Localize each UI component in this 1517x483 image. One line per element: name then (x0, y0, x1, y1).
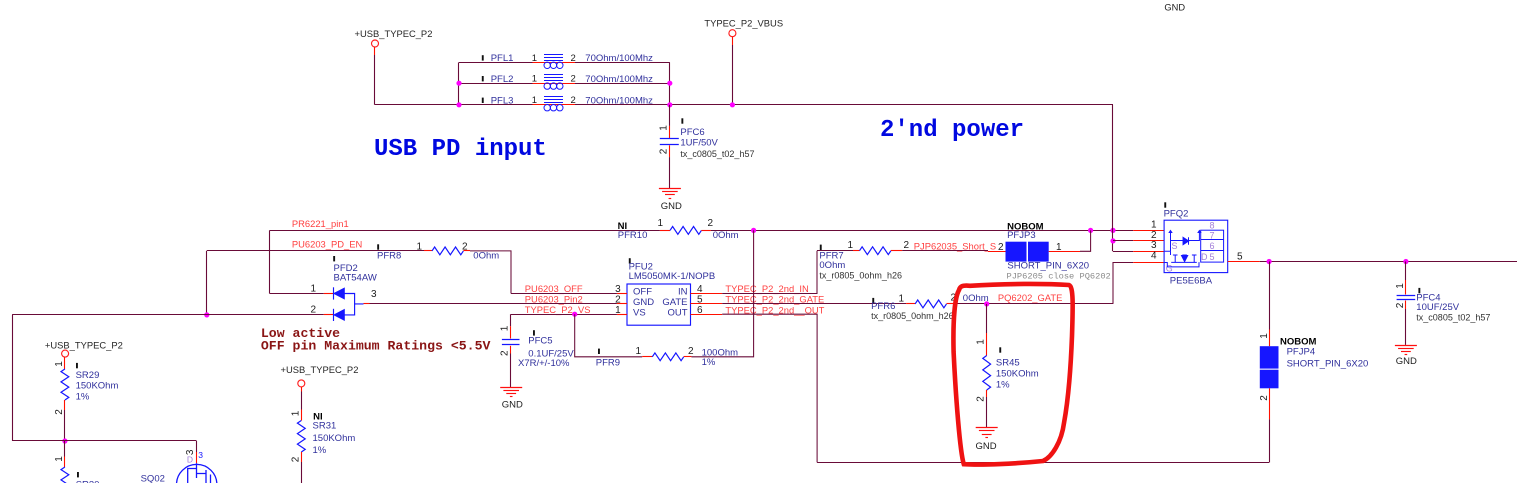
wire VBUS vertical to PFQ2 (1112, 105, 1114, 252)
svg-text:PFR10: PFR10 (618, 230, 648, 241)
svg-text:1: 1 (532, 74, 537, 85)
svg-text:SR30: SR30 (76, 480, 100, 483)
svg-text:2: 2 (658, 148, 669, 154)
wire SR31 power stub (301, 387, 303, 392)
wire to PFD2 pin 1 (270, 293, 324, 295)
svg-text:D: D (187, 455, 193, 465)
wire PFL right vertical bus (669, 62, 671, 104)
junction PR6221 rail / PFJP3 branch (1088, 228, 1093, 233)
svg-text:3: 3 (1151, 240, 1157, 251)
capacitor PFC5 (502, 339, 520, 341)
svg-text:IN: IN (678, 287, 688, 298)
svg-text:PFL2: PFL2 (491, 74, 514, 85)
svg-text:3: 3 (371, 289, 377, 300)
svg-text:1: 1 (658, 125, 669, 131)
svg-text:PJP62035_Short_S: PJP62035_Short_S (914, 240, 996, 251)
wire PFC5 pin 1 stub (510, 326, 512, 338)
junction GATE row / SR45 (984, 301, 989, 306)
svg-text:tx_r0805_0ohm_h26: tx_r0805_0ohm_h26 (819, 270, 902, 280)
svg-text:2: 2 (1395, 302, 1406, 308)
svg-text:+USB_TYPEC_P2: +USB_TYPEC_P2 (281, 364, 359, 375)
junction right bus PFL2 (667, 81, 672, 86)
svg-text:8: 8 (1209, 220, 1214, 230)
wire PFR9 to PR6221 rail (691, 230, 753, 356)
svg-text:TYPEC_P2_VBUS: TYPEC_P2_VBUS (704, 18, 783, 29)
resistor PFR7 (820, 245, 822, 250)
svg-text:SR31: SR31 (313, 420, 337, 431)
ferrite bead PFL1 (544, 54, 563, 56)
resistor SR30 (partial at bottom edge) (61, 467, 69, 483)
svg-text:2: 2 (462, 242, 468, 253)
wire PFL3 pin 1 stub (533, 104, 576, 106)
wire PFQ2 pin 2 link (1113, 240, 1133, 242)
wire PFC4 pin 1 stub (1405, 280, 1407, 295)
ferrite bead PFL2 (544, 74, 563, 76)
junction output rail / PFC4 (1403, 259, 1408, 264)
wire SR29 to bottom node (64, 410, 66, 441)
svg-text:1UF/50V: 1UF/50V (680, 138, 718, 149)
wire PFC4 pin 2 stub (1405, 301, 1407, 310)
annotation red highlight loop around SR45 (953, 284, 1072, 465)
svg-text:1: 1 (1395, 283, 1406, 289)
wire left rail to PFD2 pin 2 (12, 314, 324, 316)
svg-text:2: 2 (290, 456, 301, 462)
svg-text:4: 4 (697, 284, 703, 295)
svg-text:1: 1 (898, 293, 904, 304)
svg-text:2: 2 (688, 346, 694, 357)
svg-text:USB PD input: USB PD input (374, 136, 547, 163)
svg-text:2: 2 (1151, 230, 1157, 241)
wire bottom-left rail (12, 440, 196, 442)
svg-text:GND: GND (661, 201, 682, 212)
svg-text:1%: 1% (702, 357, 716, 368)
svg-text:1%: 1% (313, 445, 327, 456)
junction PR6221 rail / VBUS vertical (1110, 228, 1115, 233)
svg-text:5: 5 (1209, 252, 1214, 262)
svg-text:1: 1 (532, 53, 537, 64)
wire output rail right (1260, 261, 1517, 263)
wire PFR8 output to PFU2 OFF (470, 251, 511, 294)
svg-text:2: 2 (54, 409, 65, 415)
svg-text:PFJP4: PFJP4 (1287, 346, 1316, 357)
svg-text:1: 1 (1259, 333, 1270, 339)
svg-text:GND: GND (1396, 356, 1417, 367)
svg-text:1: 1 (635, 346, 641, 357)
wire TYPEC_P2_2nd__OUT row down (722, 314, 817, 462)
svg-text:1: 1 (54, 361, 65, 367)
svg-text:1: 1 (976, 339, 987, 345)
resistor SR31 (NI) (297, 421, 305, 453)
svg-text:5: 5 (1237, 251, 1243, 262)
wire SR31 bottom connection (301, 462, 303, 483)
wire PR6221_pin1 rail left of PFR10 (270, 230, 660, 232)
junction right bus PFL3 (667, 102, 672, 107)
resistor PFR8 (377, 244, 379, 249)
svg-text:PU6203_Pin2: PU6203_Pin2 (525, 294, 583, 305)
wire PQ6202_GATE to PFQ2 pin 4 (1113, 263, 1133, 304)
svg-text:BAT54AW: BAT54AW (334, 272, 377, 283)
wire PFJP3 pin 2 stub (988, 251, 1006, 253)
junction left bus PFL2 (456, 81, 461, 86)
wire PFU2 pin 5 stub (691, 303, 723, 305)
svg-text:2: 2 (615, 294, 621, 305)
wire PFL2 row left segment (459, 83, 533, 85)
svg-text:2: 2 (904, 240, 910, 251)
wire PR6221_pin1 left vertical to PFD2 pin1 (269, 230, 271, 293)
ground symbol below PFC4 (1395, 345, 1417, 347)
wire PFU2 pin 6 stub (691, 314, 723, 316)
PFD2 symbol (333, 287, 335, 299)
wire PFL3 row left segment (459, 104, 533, 106)
wire PFD2 pin 3 stub (364, 303, 370, 305)
wire PFL1 row right segment (575, 62, 670, 64)
wire PR6221_pin1 rail right of PFR10 (711, 230, 1133, 232)
resistor SR29 (61, 369, 69, 400)
svg-text:4: 4 (1151, 251, 1157, 262)
wire PFQ2 pin 5 stub (1228, 261, 1260, 263)
wire PFC4 to ground (1405, 309, 1407, 345)
svg-text:5: 5 (697, 294, 703, 305)
svg-text:PFR9: PFR9 (596, 357, 620, 368)
wire PFL2 row right segment (575, 83, 670, 85)
svg-text:1: 1 (1151, 219, 1157, 230)
wire PFJP4 pin 1 stub (1269, 330, 1271, 347)
svg-text:OUT: OUT (667, 307, 687, 318)
wire TYPEC_P2_VBUS vertical (732, 45, 734, 105)
wire SR45 pin 1 stub (986, 333, 988, 356)
wire PFR7 elbow (817, 250, 853, 252)
svg-text:PFR8: PFR8 (377, 250, 401, 261)
wire bus left segment to +USB_TYPEC_P2 (375, 104, 459, 106)
svg-text:PJP6205 close PQ6202: PJP6205 close PQ6202 (1007, 271, 1111, 281)
wire SR45 top connection (986, 304, 988, 333)
svg-text:0Ohm: 0Ohm (473, 250, 499, 261)
svg-text:7: 7 (1209, 230, 1214, 240)
wire PFL1 row left segment (459, 62, 533, 64)
wire PFU2 pin 4 stub (691, 293, 723, 295)
wire PFD2 pin3 to PFU2 GND pin (370, 303, 617, 305)
junction left rail / PD_EN vertical (204, 312, 209, 317)
wire SR31 pin 1 stub (301, 410, 303, 421)
svg-text:2'nd power: 2'nd power (880, 117, 1024, 144)
svg-text:+USB_TYPEC_P2: +USB_TYPEC_P2 (355, 28, 433, 39)
resistor SR45 (983, 356, 991, 391)
svg-text:GND: GND (976, 441, 997, 452)
wire PFL2 pin 1 stub (533, 83, 576, 85)
svg-text:tx_c0805_t02_h57: tx_c0805_t02_h57 (1416, 313, 1490, 323)
ground symbol below SR45 (976, 427, 998, 429)
svg-text:0Ohm: 0Ohm (713, 230, 739, 241)
svg-text:1: 1 (658, 218, 664, 229)
wire SR45 pin 2 stub (986, 390, 988, 397)
svg-text:1: 1 (532, 95, 537, 106)
wire PFC6 pin 2 stub (669, 145, 671, 157)
svg-text:2: 2 (500, 350, 511, 356)
svg-text:SR45: SR45 (996, 358, 1020, 369)
svg-text:6: 6 (1209, 241, 1214, 251)
svg-text:PFQ2: PFQ2 (1164, 209, 1189, 220)
ground symbol below PFC6 (659, 188, 681, 190)
wire PFC5 to ground (510, 354, 512, 388)
svg-text:150KOhm: 150KOhm (996, 368, 1039, 379)
svg-text:PFC6: PFC6 (680, 127, 704, 138)
wire PFJP3 pin 1 stub (1049, 251, 1080, 253)
junction SR29 bottom rail (62, 438, 67, 443)
svg-text:VS: VS (633, 307, 646, 318)
wire main VBUS bus to the right (575, 104, 1113, 106)
junction VBUS at bus (730, 102, 735, 107)
svg-text:2: 2 (1259, 395, 1270, 401)
svg-text:S: S (1171, 241, 1177, 251)
wire PFR7 to PFJP3 (902, 250, 988, 252)
junction VS row / PFR9 branch (572, 312, 577, 317)
wire TYPEC_P2_2nd_IN row to PFR7 (722, 251, 817, 294)
wire PFJP3 pin1 up to rail (1080, 230, 1091, 251)
wire PFD2 pin 1 stub (324, 293, 334, 295)
wire PFC6 to ground (669, 157, 671, 188)
svg-text:10UF/25V: 10UF/25V (1416, 302, 1459, 313)
svg-text:1: 1 (311, 283, 317, 294)
svg-text:1%: 1% (996, 379, 1010, 390)
wire PFC5 top connection (510, 314, 512, 326)
svg-text:6: 6 (697, 305, 703, 316)
wire TYPEC_P2_VBUS pin stub (732, 37, 734, 46)
transistor Q PFQ2 PE5E6BA (1164, 202, 1166, 207)
svg-text:GND: GND (502, 400, 523, 411)
wire PFR9 branch from VS row (575, 314, 643, 357)
junction PR6221 rail / PFR9 branch (751, 228, 756, 233)
svg-text:OFF: OFF (633, 287, 652, 298)
wire SQ02 drain stub (196, 452, 198, 463)
capacitor PFC4 (1397, 295, 1416, 297)
svg-text:tx_c0805_t02_h57: tx_c0805_t02_h57 (680, 149, 754, 159)
PFQ2 internal mosfet (1171, 251, 1197, 262)
wire PFL left vertical bus (458, 62, 460, 104)
svg-text:1: 1 (416, 242, 422, 253)
wire PFL1 pin 1 stub (533, 62, 576, 64)
wire PFJP4 top connection (1269, 262, 1271, 330)
PFQ2 internal body diode (1171, 240, 1184, 242)
wire SR30 top connection (64, 441, 66, 457)
ferrite bead PFL3 (544, 96, 563, 98)
svg-text:TYPEC_P2_2nd_IN: TYPEC_P2_2nd_IN (725, 283, 808, 294)
wire PFU2 pin 1 stub (617, 314, 627, 316)
wire PFQ2 pin3 elbow (1113, 251, 1133, 253)
svg-text:1%: 1% (76, 392, 90, 403)
svg-text:PE5E6BA: PE5E6BA (1170, 276, 1213, 287)
svg-text:PU6203_PD_EN: PU6203_PD_EN (292, 239, 362, 250)
wire bottom rail OUT net (817, 462, 1269, 464)
svg-text:1: 1 (290, 410, 301, 416)
svg-text:TYPEC_P2_2nd_GATE: TYPEC_P2_2nd_GATE (725, 294, 824, 305)
wire PD_EN branch left vertical (206, 251, 208, 315)
ground symbol below PFC5 (500, 387, 522, 389)
wire PFJP4 pin2 to bottom rail (1269, 419, 1271, 462)
junction output rail / PFJP4 (1267, 259, 1272, 264)
op-amp U PFU2 LM5050MK-1/NOPB (629, 258, 631, 263)
svg-text:2: 2 (998, 242, 1004, 253)
wire PFC6 top connection (669, 105, 671, 126)
svg-text:150KOhm: 150KOhm (313, 433, 356, 444)
svg-text:TYPEC_P2_VS: TYPEC_P2_VS (525, 304, 591, 315)
svg-text:X7R/+/-10%: X7R/+/-10% (518, 358, 570, 369)
resistor PFR9 (598, 349, 600, 354)
svg-text:LM5050MK-1/NOPB: LM5050MK-1/NOPB (629, 271, 716, 282)
svg-text:SHORT_PIN_6X20: SHORT_PIN_6X20 (1287, 359, 1369, 370)
wire TYPEC_P2_VS row (511, 314, 617, 316)
wire PFC4 top connection (1405, 262, 1407, 281)
wire PU6203_OFF row (511, 293, 617, 295)
svg-text:SQ02: SQ02 (141, 473, 165, 483)
svg-text:PU6203_OFF: PU6203_OFF (525, 283, 583, 294)
svg-text:PFL3: PFL3 (491, 96, 514, 107)
svg-text:1: 1 (54, 456, 65, 462)
wire PFQ2 pin 1 stub (1133, 230, 1164, 232)
wire TYPEC_P2_2nd_GATE row (722, 303, 906, 305)
wire SR30 pin 1 stub (64, 457, 66, 468)
diode PFD2 BAT54AW (333, 256, 335, 261)
wire PU6203_PD_EN row (207, 250, 424, 252)
wire PFC5 pin 2 stub (510, 346, 512, 354)
wire SR31 pin 2 stub (301, 452, 303, 462)
svg-text:D: D (1201, 252, 1208, 262)
wire PFD2 pin 2 stub (324, 314, 334, 316)
junction left bus PFL3 (456, 102, 461, 107)
wire rail to SQ02 drain (196, 441, 198, 452)
svg-text:PR6221_pin1: PR6221_pin1 (292, 218, 349, 229)
wire SR29 pin 1 stub (64, 357, 66, 369)
junction PFQ2 pin2 branch (1110, 238, 1115, 243)
wire PFQ2 pin 2 stub (1133, 240, 1164, 242)
svg-text:2: 2 (976, 396, 987, 402)
wire +USB_TYPEC_P2 pin stub (374, 47, 376, 55)
svg-text:SR29: SR29 (76, 370, 100, 381)
svg-text:2: 2 (311, 305, 317, 316)
capacitor PFC6 (660, 138, 679, 140)
svg-text:1: 1 (500, 325, 511, 331)
svg-text:3: 3 (198, 450, 203, 460)
svg-text:GND: GND (1164, 3, 1185, 13)
svg-text:PFC5: PFC5 (528, 336, 552, 347)
wire PFJP4 pin 2 stub (1269, 388, 1271, 419)
svg-text:SHORT_PIN_6X20: SHORT_PIN_6X20 (1007, 260, 1089, 271)
wire +USB_TYPEC_P2 vertical (374, 55, 376, 105)
wire SR29 pin 2 stub (64, 400, 66, 410)
wire PFU2 pin 3 stub (617, 293, 627, 295)
svg-text:OFF pin Maximum Ratings <5.5V: OFF pin Maximum Ratings <5.5V (261, 338, 491, 353)
wire PFC6 pin 1 stub (669, 126, 671, 138)
wire SR31 top connection (301, 392, 303, 410)
wire PQ6202_GATE row (955, 303, 1113, 305)
svg-text:PFL1: PFL1 (491, 53, 514, 64)
PFQ2 internal source line (1164, 231, 1170, 252)
wire PFQ2 pin 4 stub (1133, 262, 1164, 264)
svg-text:PFJP3: PFJP3 (1007, 230, 1036, 241)
svg-text:+USB_TYPEC_P2: +USB_TYPEC_P2 (45, 339, 123, 350)
svg-text:2: 2 (708, 218, 714, 229)
svg-text:150KOhm: 150KOhm (76, 381, 119, 392)
svg-text:1: 1 (848, 240, 854, 251)
wire far left vertical (12, 315, 14, 441)
wire SR45 to ground (986, 397, 988, 427)
wire PFU2 pin 2 stub (617, 303, 627, 305)
svg-text:tx_r0805_0ohm_h26: tx_r0805_0ohm_h26 (871, 311, 954, 321)
svg-text:PQ6202_GATE: PQ6202_GATE (998, 292, 1062, 303)
svg-text:1: 1 (1056, 242, 1062, 253)
wire PFQ2 pin 3 stub (1133, 251, 1164, 253)
resistor PFR6 (872, 298, 874, 303)
